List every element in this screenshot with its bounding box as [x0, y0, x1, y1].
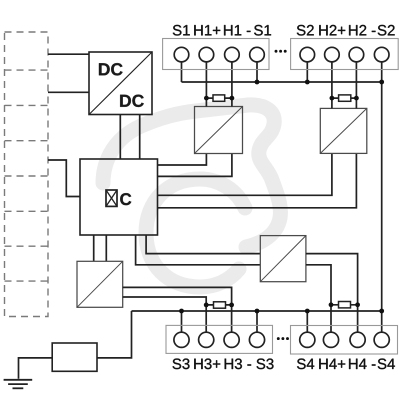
wire amp4 to H4+ — [306, 265, 331, 332]
isolation amplifier U4 — [320, 108, 367, 153]
wire supply + to DC/DC — [48, 53, 89, 55]
terminal block 3 — [166, 325, 273, 353]
S rail top — [182, 81, 382, 83]
wire amp3 to H3+ — [123, 297, 207, 332]
resistor R3 — [206, 302, 231, 308]
terminal block 1 — [163, 39, 269, 70]
wire H1- to amp1 — [231, 62, 233, 107]
wire rail to filter — [97, 311, 132, 358]
wire DC/DC to uC right — [139, 115, 141, 160]
ellipsis top — [275, 50, 287, 53]
wire S1 left to rail — [181, 62, 183, 82]
labels terminal block 2 — [297, 25, 395, 36]
watermark swoosh — [103, 105, 280, 247]
wire amp2 out A to uC — [158, 154, 332, 196]
wire S3 left to rail — [181, 311, 183, 332]
isolation amplifier U3 — [195, 107, 243, 154]
wire H2- to amp2 — [355, 62, 357, 109]
terminal block 2 — [291, 39, 399, 70]
dashed connector block X1 — [5, 32, 49, 317]
microcontroller U2 — [80, 159, 158, 235]
ellipsis bottom — [277, 337, 289, 340]
wire DC/DC to uC left — [119, 115, 121, 160]
wire filter to ground — [19, 358, 53, 379]
wire S3 right to rail — [256, 311, 258, 332]
labels terminal block 3 — [173, 359, 274, 370]
labels terminal block 1 — [173, 25, 271, 36]
wire S1 right to rail — [256, 62, 258, 82]
wire amp1 out B to uC — [158, 154, 232, 177]
filter Z1 — [52, 343, 97, 371]
watermark ring — [146, 179, 245, 287]
wire uC to amp3 in B — [105, 235, 107, 261]
isolation amplifier U6 — [260, 236, 306, 282]
wire bus to microcontroller — [48, 160, 80, 197]
labels terminal block 4 — [297, 359, 395, 370]
isolation amplifier U5 — [77, 261, 123, 307]
wire uC to amp3 in A — [93, 235, 95, 261]
DC/DC converter U1 — [89, 52, 152, 115]
wire H1+ to amp1 — [205, 62, 207, 107]
wire supply - to DC/DC — [48, 91, 89, 93]
S rail bottom — [132, 310, 382, 312]
wire uC to amp4 in B — [146, 235, 260, 254]
wire amp1 out A to uC — [158, 154, 207, 166]
resistor R2 — [332, 95, 357, 101]
resistor R4 — [331, 302, 358, 308]
terminal block 4 — [291, 326, 398, 355]
wire amp4 to H4- — [306, 254, 358, 332]
wire amp2 out B to uC — [158, 154, 357, 208]
wire S2 left to rail — [306, 62, 308, 82]
wire amp3 to H3- — [123, 287, 232, 332]
resistor R1 — [206, 95, 232, 101]
wire H2+ to amp2 — [331, 62, 333, 109]
wire S rail vertical — [381, 62, 383, 332]
wire uC to amp4 in A — [136, 235, 261, 265]
ground — [4, 380, 33, 389]
wire S4 left to rail — [306, 311, 308, 332]
